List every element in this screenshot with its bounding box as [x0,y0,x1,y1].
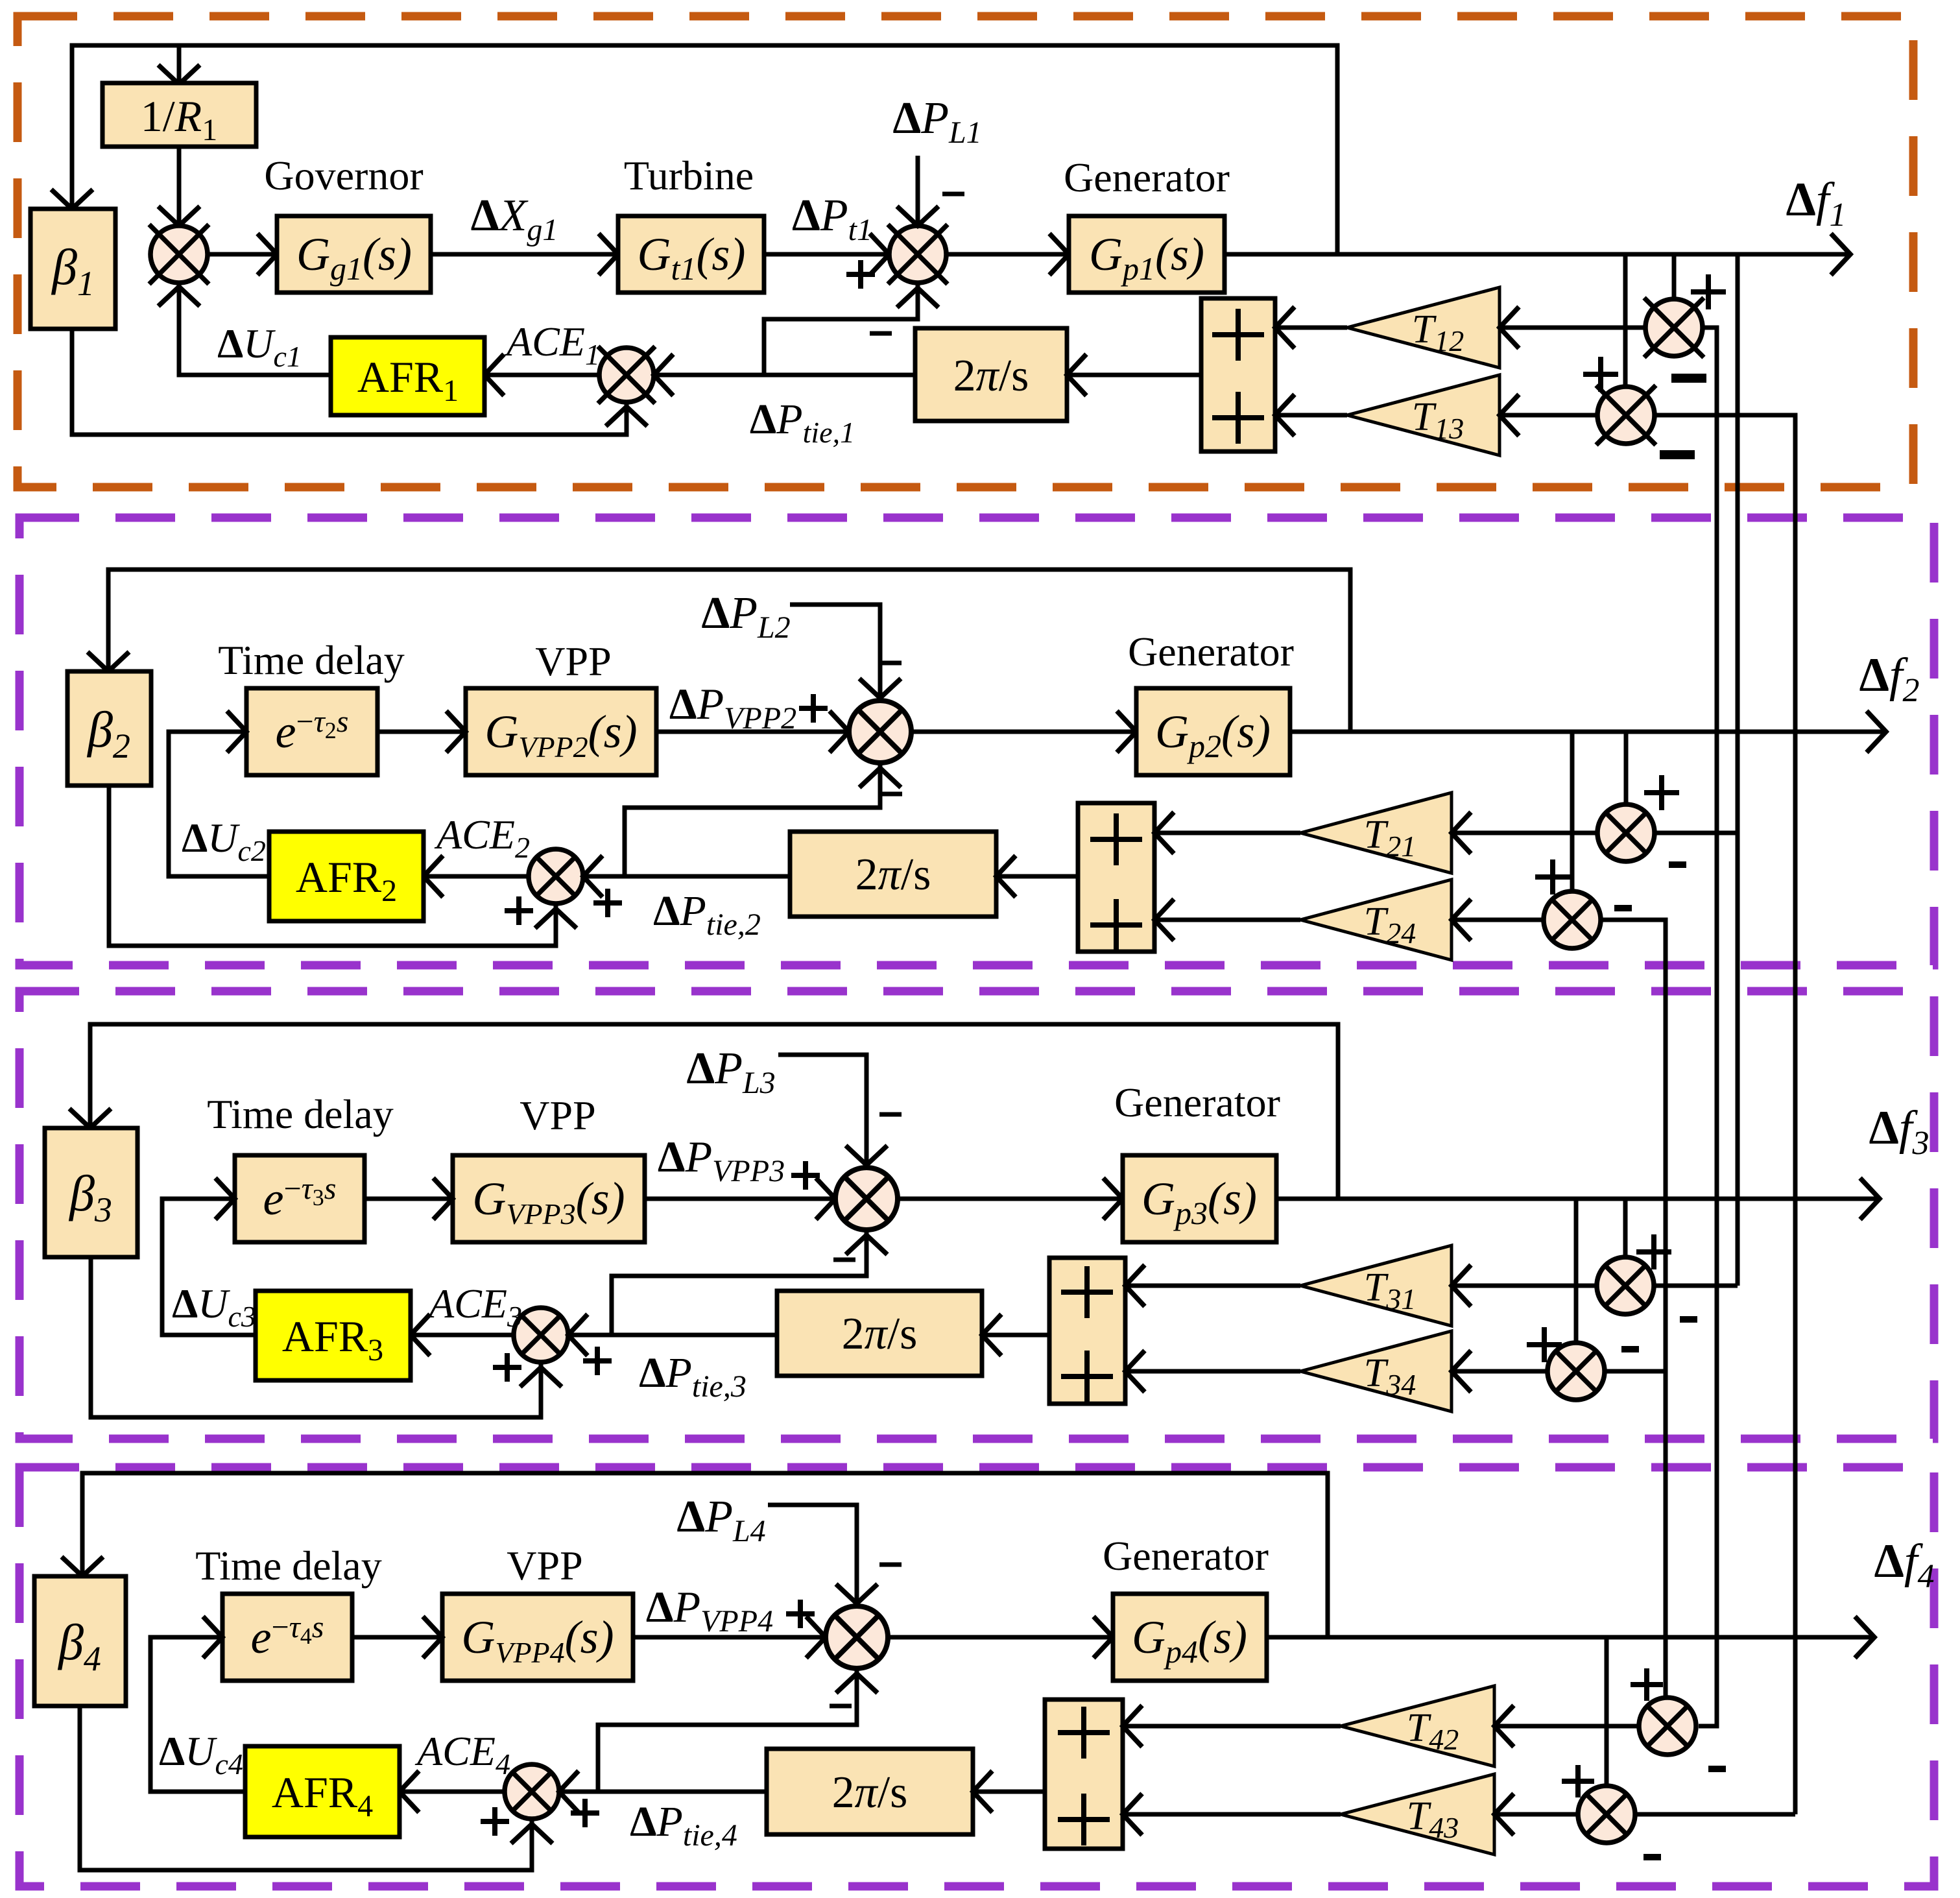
svg-text:Generator: Generator [1128,629,1294,675]
svg-text:2π/s: 2π/s [832,1768,908,1818]
svg-text:Governor: Governor [264,152,423,198]
svg-text:VPP: VPP [507,1543,582,1589]
svg-text:Turbine: Turbine [624,152,754,198]
svg-text:2π/s: 2π/s [953,351,1029,401]
svg-text:Generator: Generator [1064,154,1230,200]
svg-text:2π/s: 2π/s [855,850,931,900]
svg-text:Generator: Generator [1103,1533,1269,1579]
svg-text:Time delay: Time delay [218,637,404,683]
svg-text:VPP: VPP [535,638,611,684]
svg-text:VPP: VPP [520,1092,595,1138]
svg-text:Time delay: Time delay [195,1543,381,1589]
svg-text:Generator: Generator [1114,1079,1280,1125]
svg-text:2π/s: 2π/s [842,1309,918,1359]
svg-text:Time delay: Time delay [207,1091,393,1137]
